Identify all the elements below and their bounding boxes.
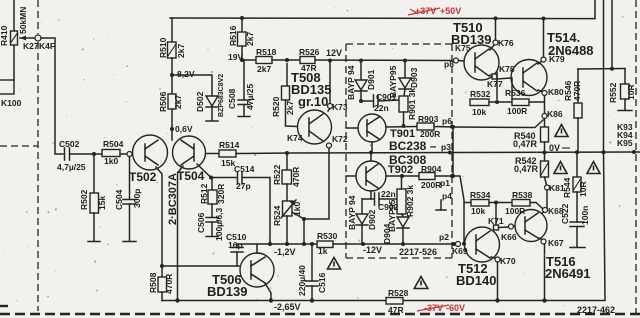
svg-text:D902: D902 bbox=[367, 209, 377, 230]
svg-text:27p: 27p bbox=[236, 181, 251, 191]
svg-text:R524: R524 bbox=[272, 205, 282, 226]
svg-text:R504: R504 bbox=[103, 139, 124, 149]
svg-text:15k: 15k bbox=[97, 196, 107, 210]
svg-text:p1: p1 bbox=[440, 178, 450, 188]
svg-text:D903: D903 bbox=[409, 67, 419, 88]
svg-text:T502: T502 bbox=[129, 170, 157, 184]
svg-text:100µ/6,3: 100µ/6,3 bbox=[214, 207, 224, 241]
svg-text:K27: K27 bbox=[23, 41, 39, 51]
svg-text:R903: R903 bbox=[418, 114, 439, 124]
svg-text:R532: R532 bbox=[470, 89, 491, 99]
svg-text:R522: R522 bbox=[272, 164, 282, 185]
svg-text:R508: R508 bbox=[148, 272, 158, 293]
svg-text:300p: 300p bbox=[132, 189, 142, 208]
svg-text:R518: R518 bbox=[256, 47, 277, 57]
svg-text:0,47R: 0,47R bbox=[513, 139, 538, 149]
svg-text:0V: 0V bbox=[549, 143, 560, 153]
svg-text:10k: 10k bbox=[472, 107, 486, 117]
svg-text:D904: D904 bbox=[382, 223, 392, 244]
svg-text:R544: R544 bbox=[562, 177, 572, 198]
svg-text:K80: K80 bbox=[548, 87, 564, 97]
svg-text:K69: K69 bbox=[452, 246, 468, 256]
svg-text:-1,2V: -1,2V bbox=[274, 247, 296, 257]
svg-text:-12V: -12V bbox=[363, 245, 382, 255]
svg-text:R514: R514 bbox=[219, 140, 240, 150]
svg-text:R530: R530 bbox=[317, 231, 338, 241]
svg-text:K76: K76 bbox=[498, 38, 514, 48]
svg-text:47µ/25: 47µ/25 bbox=[245, 84, 255, 110]
svg-text:12V: 12V bbox=[326, 48, 342, 58]
svg-text:47R: 47R bbox=[388, 305, 404, 315]
svg-text:2k7: 2k7 bbox=[176, 44, 186, 58]
svg-text:2217-526: 2217-526 bbox=[399, 247, 437, 257]
svg-text:BAYP 94: BAYP 94 bbox=[347, 195, 357, 230]
svg-text:100R: 100R bbox=[507, 106, 527, 116]
svg-text:D901: D901 bbox=[366, 69, 376, 90]
svg-text:R902 3k: R902 3k bbox=[405, 185, 415, 217]
svg-text:2·BC307A: 2·BC307A bbox=[167, 173, 179, 225]
svg-text:K95: K95 bbox=[617, 138, 633, 148]
svg-text:K67: K67 bbox=[548, 238, 564, 248]
svg-text:R512: R512 bbox=[199, 183, 209, 204]
svg-text:K86: K86 bbox=[547, 109, 563, 119]
svg-text:T902: T902 bbox=[388, 164, 413, 176]
svg-text:K66: K66 bbox=[501, 232, 517, 242]
svg-text:K74: K74 bbox=[287, 133, 303, 143]
svg-text:C506: C506 bbox=[196, 212, 206, 233]
svg-text:K4F: K4F bbox=[39, 41, 55, 51]
svg-text:R510: R510 bbox=[158, 37, 168, 58]
svg-text:2N6491: 2N6491 bbox=[545, 266, 591, 281]
svg-text:K100: K100 bbox=[1, 98, 22, 108]
svg-text:K73: K73 bbox=[332, 102, 348, 112]
svg-text:22n: 22n bbox=[381, 189, 396, 199]
svg-text:K70: K70 bbox=[500, 256, 516, 266]
svg-text:K79: K79 bbox=[549, 54, 565, 64]
svg-text:10R: 10R bbox=[626, 84, 636, 100]
svg-text:R506: R506 bbox=[158, 91, 168, 112]
svg-text:R534: R534 bbox=[470, 190, 491, 200]
svg-text:4,7µ/25: 4,7µ/25 bbox=[57, 162, 86, 172]
svg-text:2k7: 2k7 bbox=[245, 32, 255, 46]
svg-text:C514: C514 bbox=[234, 164, 255, 174]
svg-text:BD139: BD139 bbox=[207, 284, 247, 299]
svg-text:+50V: +50V bbox=[440, 6, 461, 16]
svg-text:10k: 10k bbox=[471, 206, 485, 216]
svg-text:p6: p6 bbox=[442, 116, 452, 126]
svg-text:C504: C504 bbox=[114, 189, 124, 210]
svg-text:C502: C502 bbox=[59, 139, 80, 149]
svg-text:22n: 22n bbox=[374, 103, 389, 113]
svg-text:T504: T504 bbox=[177, 169, 205, 183]
svg-text:1k0: 1k0 bbox=[292, 202, 302, 216]
svg-text:C516: C516 bbox=[317, 272, 327, 293]
svg-text:2217-462: 2217-462 bbox=[577, 305, 615, 315]
svg-text:0,6V: 0,6V bbox=[175, 124, 193, 134]
svg-text:-60V: -60V bbox=[446, 303, 465, 313]
svg-text:BD140: BD140 bbox=[456, 273, 496, 288]
svg-text:BAYP 94: BAYP 94 bbox=[346, 65, 356, 100]
svg-text:K75: K75 bbox=[455, 43, 471, 53]
svg-text:R410: R410 bbox=[0, 25, 9, 46]
svg-text:320R: 320R bbox=[216, 184, 226, 204]
svg-text:D502: D502 bbox=[195, 91, 205, 112]
svg-text:R536: R536 bbox=[505, 88, 526, 98]
svg-text:R526: R526 bbox=[299, 47, 320, 57]
svg-text:R516: R516 bbox=[228, 25, 238, 46]
svg-text:100n: 100n bbox=[580, 206, 590, 225]
svg-text:19V: 19V bbox=[228, 52, 243, 62]
svg-text:470R: 470R bbox=[291, 167, 301, 187]
svg-text:R520: R520 bbox=[271, 96, 281, 117]
svg-text:p2: p2 bbox=[439, 232, 449, 242]
svg-text:p8: p8 bbox=[444, 59, 454, 69]
svg-text:200R: 200R bbox=[420, 129, 440, 139]
svg-text:C522: C522 bbox=[560, 203, 570, 224]
svg-text:2k7: 2k7 bbox=[285, 101, 295, 115]
svg-text:C901: C901 bbox=[376, 92, 397, 102]
svg-text:50kMN: 50kMN bbox=[18, 7, 28, 34]
svg-text:16p: 16p bbox=[228, 240, 243, 250]
svg-text:K78: K78 bbox=[499, 64, 515, 74]
svg-text:-2,65V: -2,65V bbox=[274, 302, 301, 312]
svg-text:R901 3k: R901 3k bbox=[407, 88, 417, 120]
svg-text:K71: K71 bbox=[488, 216, 504, 226]
svg-text:0,47R: 0,47R bbox=[514, 164, 539, 174]
svg-text:100R: 100R bbox=[505, 206, 525, 216]
svg-text:R552: R552 bbox=[608, 82, 618, 103]
svg-text:2k7: 2k7 bbox=[173, 95, 183, 109]
svg-text:C508: C508 bbox=[227, 88, 237, 109]
svg-text:1k: 1k bbox=[318, 246, 328, 256]
svg-text:p4: p4 bbox=[442, 191, 452, 201]
svg-text:BC238 –: BC238 – bbox=[389, 139, 437, 153]
svg-text:R528: R528 bbox=[388, 288, 409, 298]
svg-text:200R: 200R bbox=[421, 180, 441, 190]
svg-text:R538: R538 bbox=[512, 190, 533, 200]
svg-text:10R: 10R bbox=[578, 181, 588, 197]
svg-text:BZP683C8V2: BZP683C8V2 bbox=[218, 74, 225, 117]
svg-text:470R: 470R bbox=[572, 81, 582, 101]
svg-text:470R: 470R bbox=[164, 274, 174, 294]
svg-text:K77: K77 bbox=[487, 79, 503, 89]
svg-text:8,2V: 8,2V bbox=[177, 69, 195, 79]
svg-text:gr.10: gr.10 bbox=[298, 94, 328, 109]
svg-text:R904: R904 bbox=[421, 164, 442, 174]
svg-text:220µ/40: 220µ/40 bbox=[297, 265, 307, 296]
svg-text:2k7: 2k7 bbox=[257, 64, 271, 74]
svg-text:K72: K72 bbox=[332, 134, 348, 144]
svg-text:p3: p3 bbox=[441, 142, 451, 152]
svg-text:1k0: 1k0 bbox=[104, 156, 118, 166]
svg-text:R502: R502 bbox=[79, 189, 89, 210]
